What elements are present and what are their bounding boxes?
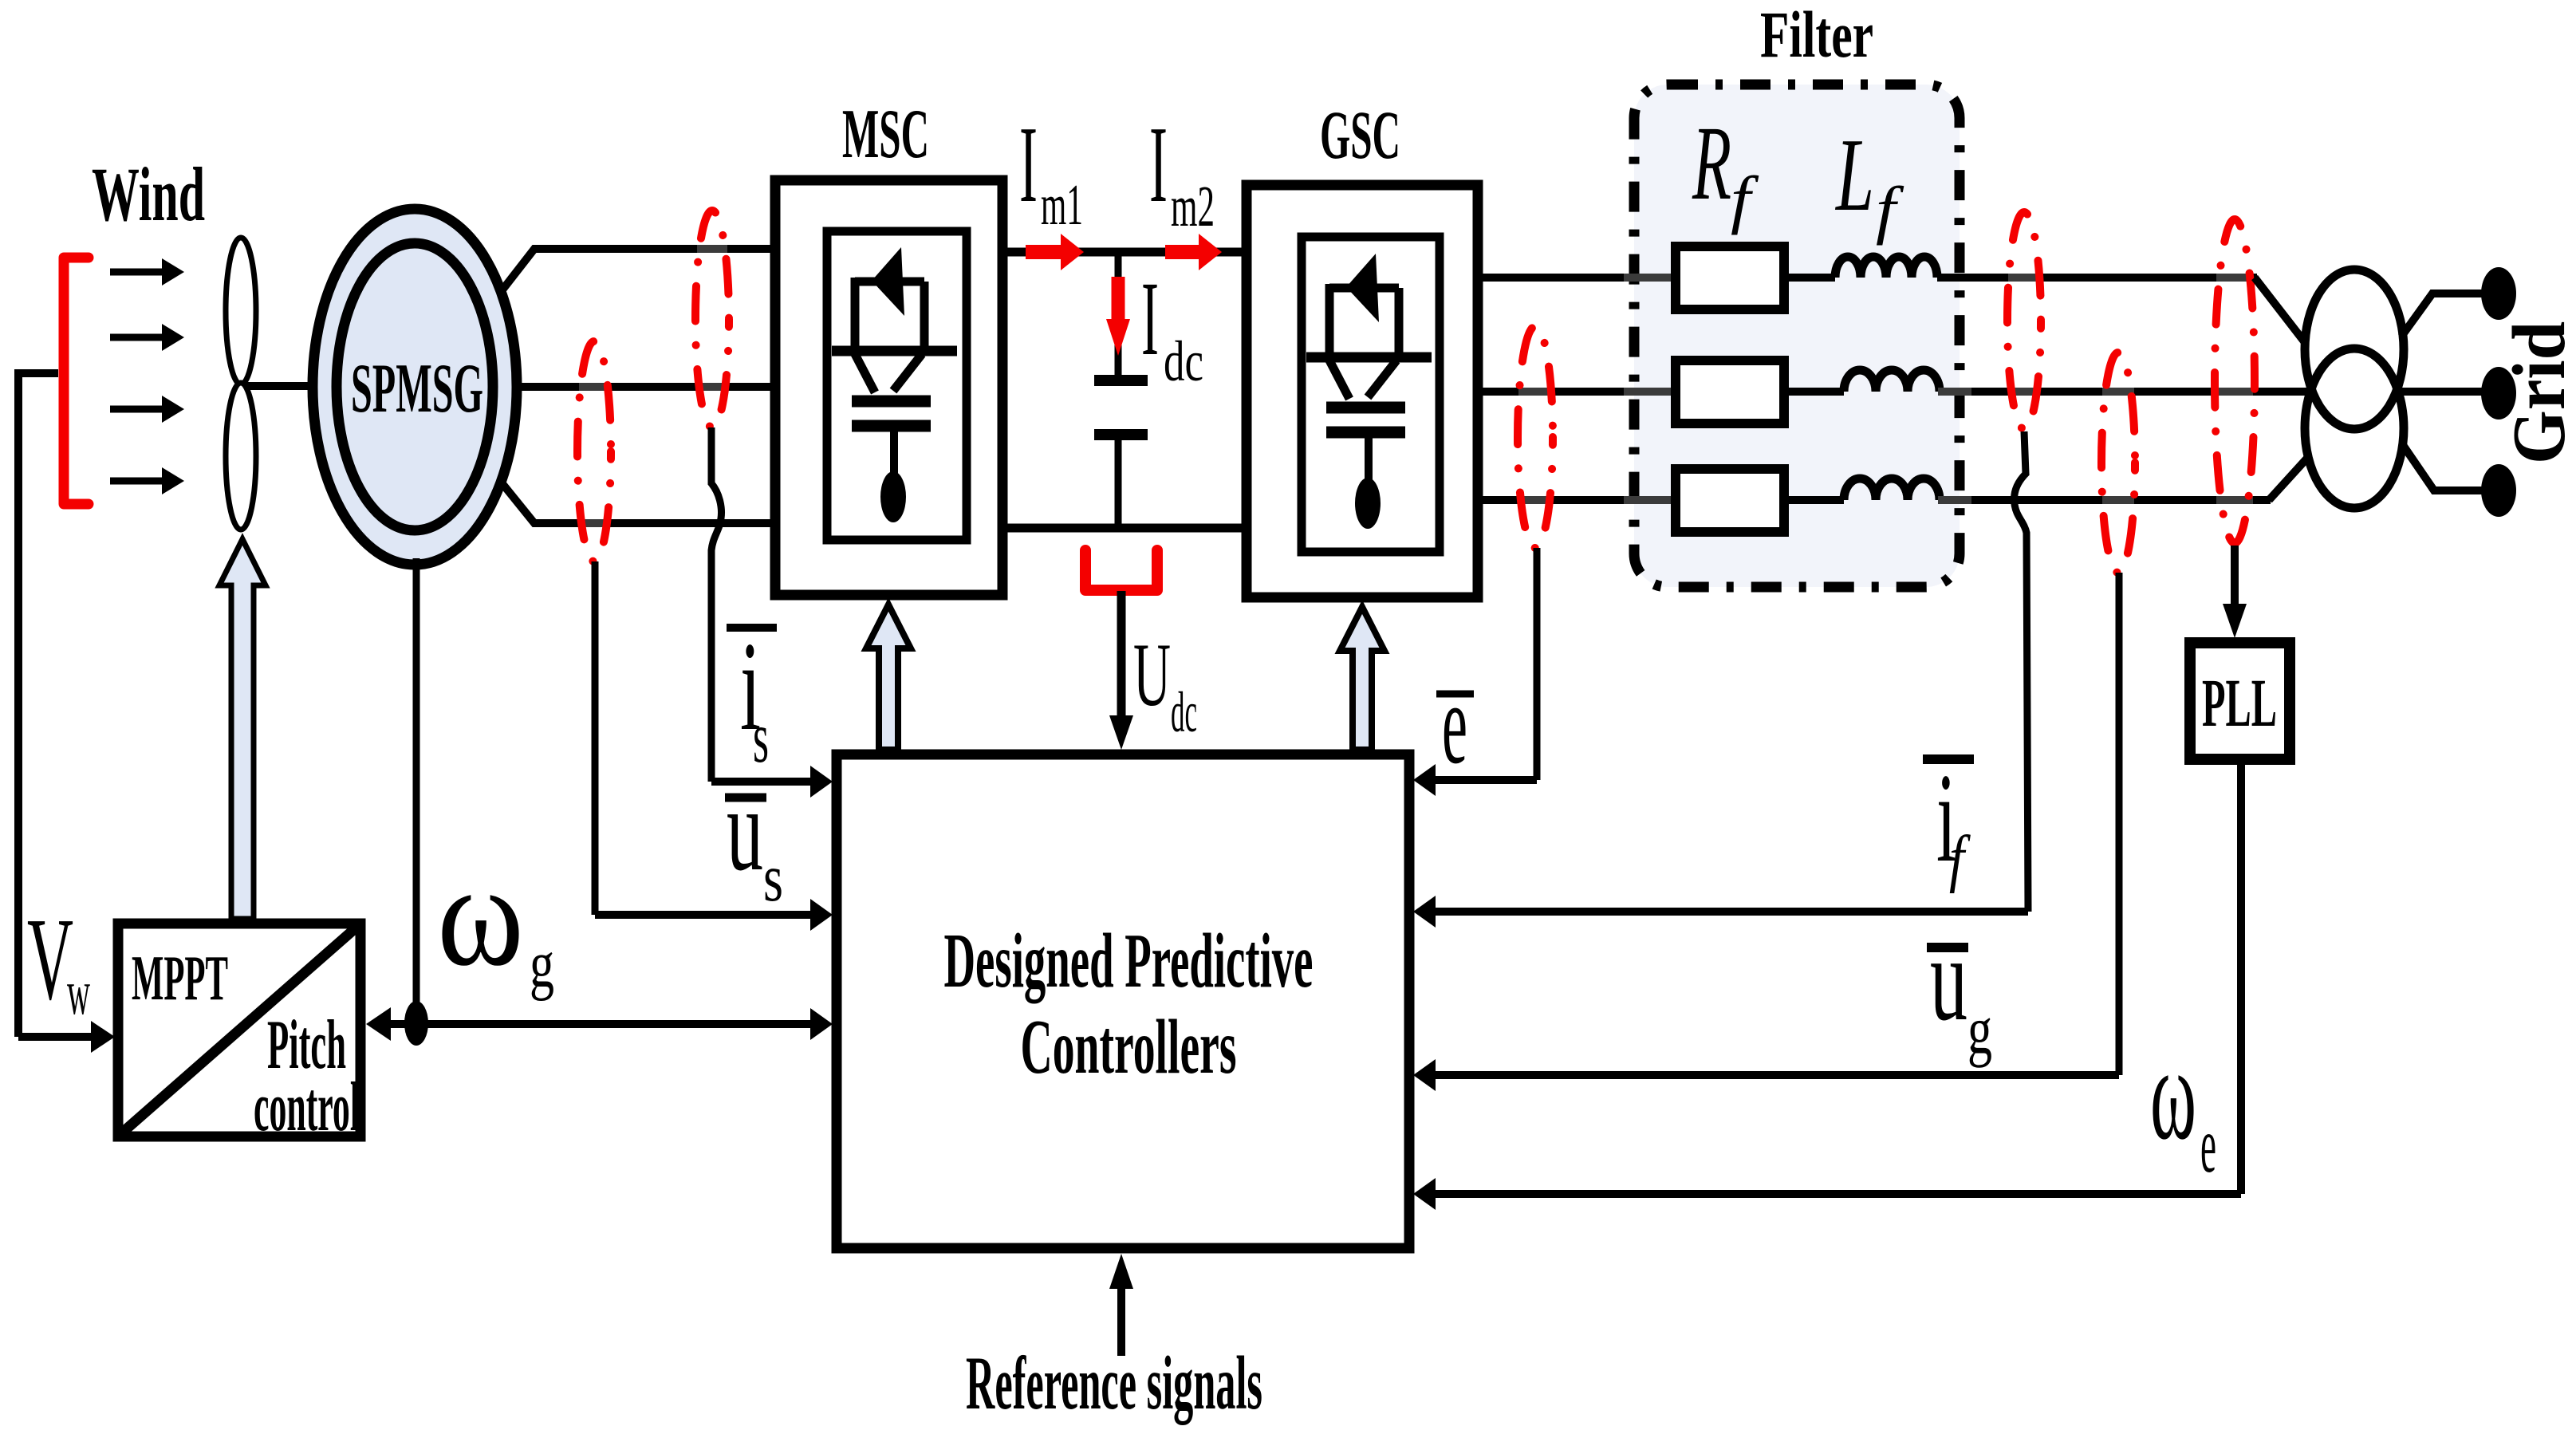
current sensor ellipse 3 (red) bbox=[1518, 326, 1553, 548]
current arrow Idc (red) bbox=[1106, 277, 1130, 356]
wire if sense vertical with hop bbox=[2015, 431, 2028, 912]
converter MSC IGBT bbox=[832, 247, 957, 522]
wind arrow 2 bbox=[110, 324, 184, 351]
arrow is into controller bbox=[711, 766, 833, 798]
svg-text:g: g bbox=[530, 928, 554, 1002]
gray crossing phase b at filter left border bbox=[1624, 388, 1676, 396]
svg-text:R: R bbox=[1692, 104, 1731, 222]
label Rf bbox=[1692, 104, 1759, 235]
gray crossing phase c at sensor 3 bbox=[1518, 496, 1552, 504]
node DC capacitor top wire bbox=[1115, 252, 1122, 376]
wire filter out phase c bbox=[1940, 496, 2271, 504]
wire GSC phase a bbox=[1483, 274, 1676, 282]
converter MSC inner box bbox=[827, 231, 967, 540]
wind arrow 1 bbox=[110, 258, 184, 286]
wire resistor to inductor phase b bbox=[1784, 388, 1844, 396]
svg-text:g: g bbox=[1967, 991, 1992, 1068]
svg-text:s: s bbox=[763, 841, 783, 916]
wire GSC phase c bbox=[1483, 496, 1676, 504]
wire omega-e from PLL bbox=[2237, 759, 2245, 1194]
transformer winding lower bbox=[2305, 349, 2404, 508]
grid terminal dot middle bbox=[2481, 367, 2516, 420]
wire transformer out middle bbox=[2396, 388, 2482, 396]
wire stator phase A diagonal bbox=[501, 249, 770, 292]
current arrow Im1 (red) bbox=[1026, 234, 1084, 270]
generator SPMSG inner bbox=[337, 243, 493, 530]
gray crossing phase b at filter right border bbox=[1938, 388, 1971, 396]
hollow control arrow to MSC bbox=[866, 605, 911, 750]
arrow e into controller bbox=[1413, 764, 1537, 796]
wire is sense vertical with hop bbox=[711, 427, 722, 782]
arrow omega-g into controller bbox=[390, 1008, 833, 1040]
wire Vw horizontal into MPPT bbox=[18, 1021, 115, 1053]
svg-text:m2: m2 bbox=[1171, 174, 1215, 238]
label omega-g bbox=[437, 833, 554, 1002]
inductor Lf phase c bbox=[1844, 479, 1940, 500]
arrow if into controller bbox=[1413, 896, 2028, 928]
gray crossing phase c at filter left border bbox=[1624, 496, 1676, 504]
svg-text:w: w bbox=[67, 958, 90, 1028]
label Lf bbox=[1835, 117, 1905, 246]
resistor Rf phase b bbox=[1676, 360, 1784, 423]
inductor Lf phase b bbox=[1844, 370, 1940, 392]
voltage sensor bracket (red) bbox=[1085, 550, 1157, 590]
block PLL bbox=[2190, 643, 2290, 759]
grid terminal dot bottom bbox=[2481, 464, 2516, 517]
svg-text:MPPT: MPPT bbox=[132, 943, 228, 1014]
wire resistor to inductor phase c bbox=[1784, 496, 1844, 504]
label Idc bbox=[1141, 259, 1203, 393]
arrow reference signals bbox=[1109, 1254, 1133, 1356]
hollow control arrow to GSC bbox=[1340, 607, 1385, 750]
arrow us into controller bbox=[595, 899, 833, 931]
svg-text:Reference signals: Reference signals bbox=[966, 1341, 1262, 1425]
wire DC rail negative bbox=[1007, 524, 1242, 533]
wire transformer in phase c diagonal bbox=[2269, 455, 2310, 500]
wind bracket (red) bbox=[64, 258, 89, 504]
svg-text:dc: dc bbox=[1171, 680, 1197, 744]
svg-text:PLL: PLL bbox=[2202, 664, 2277, 741]
svg-text:control: control bbox=[254, 1069, 360, 1146]
svg-text:e: e bbox=[1442, 660, 1467, 788]
svg-text:ω: ω bbox=[2150, 1019, 2196, 1168]
generator SPMSG outer bbox=[313, 209, 517, 565]
gray crossing phase B at sensor 2 bbox=[697, 383, 727, 391]
capacitor plate upper bbox=[1094, 375, 1148, 386]
svg-text:dc: dc bbox=[1164, 329, 1203, 393]
voltage sensor ellipse 5 (red) bbox=[2101, 353, 2135, 573]
wire DC rail positive bbox=[1007, 248, 1242, 257]
svg-text:U: U bbox=[1133, 625, 1171, 725]
current sensor ellipse 4 (red) bbox=[2007, 212, 2041, 429]
wire filter out phase a bbox=[1937, 274, 2257, 282]
wire Vw vertical bbox=[14, 369, 22, 1037]
svg-text:SPMSG: SPMSG bbox=[351, 350, 483, 427]
svg-text:ω: ω bbox=[437, 833, 524, 997]
svg-text:Controllers: Controllers bbox=[1021, 1004, 1237, 1089]
label is-bar bbox=[727, 615, 777, 778]
current sensor ellipse 2 (red) bbox=[695, 211, 729, 427]
gray crossing phase b at sensor 6 bbox=[2216, 388, 2253, 396]
wire stator phase C diagonal bbox=[501, 482, 770, 523]
wire stator phase B bbox=[514, 383, 770, 391]
converter GSC inner box bbox=[1302, 237, 1440, 552]
wire transformer out top bbox=[2401, 293, 2482, 337]
wire us sense vertical bbox=[592, 561, 599, 915]
turbine blade upper bbox=[226, 238, 256, 384]
wire omega-g from generator down bbox=[413, 558, 420, 1024]
block Designed Predictive Controllers bbox=[837, 754, 1409, 1248]
current sensor ellipse 1 (red) bbox=[577, 341, 611, 561]
wire transformer out bottom bbox=[2403, 445, 2482, 490]
transformer winding upper bbox=[2305, 270, 2404, 429]
gray crossing phase a at sensor 6 bbox=[2216, 274, 2253, 282]
voltage sensor ellipse 6 (red) bbox=[2215, 219, 2255, 543]
gray crossing phase c at sensor 6 bbox=[2216, 496, 2253, 504]
current arrow Im2 (red) bbox=[1165, 234, 1222, 270]
svg-text:L: L bbox=[1835, 117, 1874, 233]
gray crossing phase B at sensor 1 bbox=[579, 383, 609, 391]
svg-text:Wind: Wind bbox=[92, 152, 205, 237]
svg-text:GSC: GSC bbox=[1320, 97, 1400, 173]
wind arrow 4 bbox=[110, 467, 184, 494]
converter MSC box bbox=[775, 180, 1002, 595]
gray crossing phase A at sensor 2 bbox=[697, 245, 727, 253]
label e-bar bbox=[1436, 660, 1474, 788]
capacitor bottom wire bbox=[1115, 435, 1122, 528]
pitch hollow arrow to turbine bbox=[219, 539, 266, 919]
svg-text:I: I bbox=[1149, 104, 1168, 225]
converter GSC IGBT bbox=[1306, 254, 1432, 529]
svg-text:m1: m1 bbox=[1041, 172, 1083, 237]
svg-text:Filter: Filter bbox=[1760, 0, 1873, 71]
node omega-g junction dot bbox=[404, 1001, 428, 1046]
wire transformer in phase a diagonal bbox=[2255, 278, 2304, 341]
block MPPT / Pitch control bbox=[118, 924, 360, 1137]
label Udc bbox=[1133, 625, 1197, 744]
label Im2 bbox=[1149, 104, 1215, 238]
MPPT diagonal divider bbox=[120, 925, 359, 1135]
label if-bar bbox=[1923, 747, 1974, 894]
label omega-e bbox=[2150, 1019, 2216, 1189]
arrow ug into controller bbox=[1413, 1059, 2119, 1091]
svg-text:MSC: MSC bbox=[842, 96, 929, 173]
svg-text:I: I bbox=[1141, 259, 1159, 377]
arrow to PLL bbox=[2223, 546, 2247, 638]
turbine blade lower bbox=[226, 383, 256, 530]
wire ug sense vertical bbox=[2116, 573, 2123, 1075]
wind arrow 3 bbox=[110, 396, 184, 423]
arrow omega-e into controller bbox=[1413, 1178, 2241, 1210]
gray crossing phase a at sensor 4 bbox=[2008, 274, 2040, 282]
svg-text:Grid: Grid bbox=[2498, 321, 2576, 464]
svg-text:e: e bbox=[2200, 1101, 2216, 1189]
resistor Rf phase c bbox=[1676, 469, 1784, 532]
gray crossing phase c at filter right border bbox=[1938, 496, 1971, 504]
wire filter out phase b bbox=[1940, 388, 2313, 396]
capacitor plate lower bbox=[1094, 429, 1148, 440]
svg-text:I: I bbox=[1019, 104, 1038, 225]
wire e sense vertical bbox=[1534, 548, 1541, 780]
wire Vw sense from bracket bbox=[18, 369, 58, 377]
gray crossing phase C at sensor 1 bbox=[579, 519, 609, 527]
inductor Lf phase a bbox=[1835, 257, 1937, 278]
label Im1 bbox=[1019, 104, 1083, 237]
gray crossing phase b at sensor 4 bbox=[2008, 388, 2040, 396]
svg-text:u: u bbox=[1930, 912, 1967, 1046]
gray crossing phase a at filter left border bbox=[1624, 274, 1676, 282]
gray crossing phase b at sensor 5 bbox=[2102, 388, 2134, 396]
wire resistor to inductor phase a bbox=[1784, 274, 1835, 282]
turbine shaft bbox=[239, 382, 319, 390]
label ug-bar bbox=[1927, 912, 1992, 1068]
label us-bar bbox=[725, 763, 783, 916]
label Vw bbox=[27, 894, 90, 1028]
measurement arrow Udc bbox=[1109, 591, 1133, 750]
grid terminal dot top bbox=[2481, 267, 2516, 320]
converter GSC box bbox=[1247, 185, 1478, 597]
arrow omega-g into MPPT bbox=[366, 1007, 391, 1041]
svg-text:Designed Predictive: Designed Predictive bbox=[944, 918, 1314, 1003]
gray crossing phase b at sensor 3 bbox=[1518, 388, 1552, 396]
resistor Rf phase a bbox=[1676, 246, 1784, 309]
wire GSC phase b bbox=[1483, 388, 1676, 396]
filter box (dash-dot) bbox=[1634, 85, 1960, 587]
gray crossing phase c at sensor 5 bbox=[2102, 496, 2134, 504]
